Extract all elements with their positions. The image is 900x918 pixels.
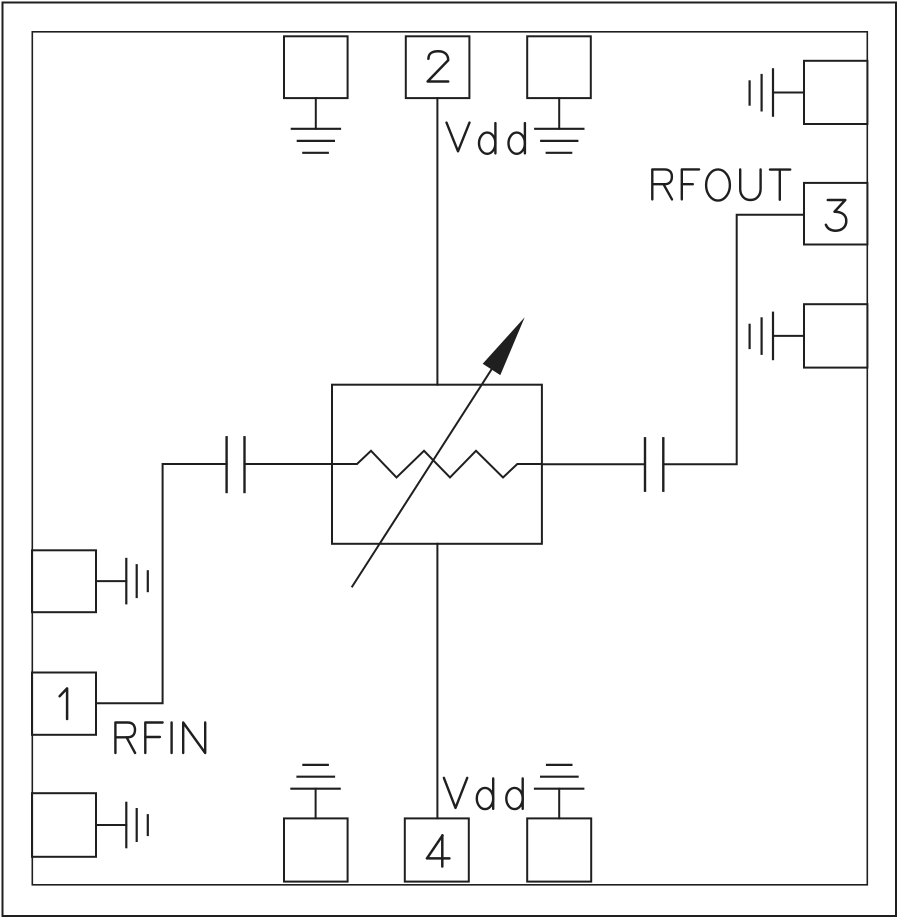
- bypass capacitor symbol right of left-lower pad: [96, 803, 148, 847]
- output coupling capacitor C2: [645, 438, 663, 490]
- pin number 3: [826, 200, 846, 231]
- pin number 2: [428, 51, 449, 81]
- input coupling capacitor C1: [227, 437, 245, 492]
- wire box right edge to output cap: [542, 463, 645, 465]
- wire RFIN: pad1 right, up, to input cap: [96, 464, 227, 703]
- pad 1 (RFIN pad): [32, 673, 96, 735]
- pad right-top (bypass pad): [804, 61, 867, 124]
- variable-resistor arrow shaft: [352, 364, 495, 587]
- pad bottom-right (ground pad): [527, 818, 591, 881]
- wire input cap to box left edge: [245, 463, 333, 465]
- pad left-upper (bypass pad): [32, 550, 96, 612]
- wire RFOUT: pad3 left, down, to output cap: [663, 215, 804, 465]
- pad top-left (ground pad): [284, 36, 348, 98]
- pad left-lower (bypass pad): [32, 793, 96, 857]
- label Vdd (top): [447, 123, 525, 154]
- wire pad2 to box top (Vdd): [436, 98, 438, 385]
- label RFIN: [115, 723, 205, 754]
- pad 2 (top center): [406, 36, 470, 98]
- variable-resistor arrowhead: [483, 317, 525, 375]
- ground below top-left pad: [292, 98, 340, 153]
- pad right-mid (bypass pad): [804, 304, 867, 367]
- pin number 4: [427, 835, 450, 866]
- pad 3 (RFOUT pad): [804, 183, 867, 245]
- ground above bottom-left pad: [291, 765, 339, 819]
- label Vdd (bottom): [444, 778, 523, 809]
- central attenuator box: [332, 385, 542, 544]
- label RFOUT: [652, 169, 790, 200]
- ground below that pad: [535, 98, 583, 153]
- ground above bottom-right pad: [535, 765, 583, 819]
- pad 4 (bottom center): [405, 818, 469, 881]
- pad bottom-left (ground pad): [284, 818, 348, 881]
- pin number 1: [60, 688, 68, 719]
- bypass capacitor symbol left of right-top pad: [750, 69, 804, 115]
- variable resistor R1 zigzag: [332, 451, 542, 478]
- bypass capacitor symbol left of right-mid pad: [750, 313, 804, 359]
- bypass capacitor symbol right of left-upper pad: [96, 559, 148, 603]
- pad top-right-of-Vdd (ground pad): [527, 36, 591, 98]
- wire box bottom to pad4 (Vdd): [436, 544, 438, 819]
